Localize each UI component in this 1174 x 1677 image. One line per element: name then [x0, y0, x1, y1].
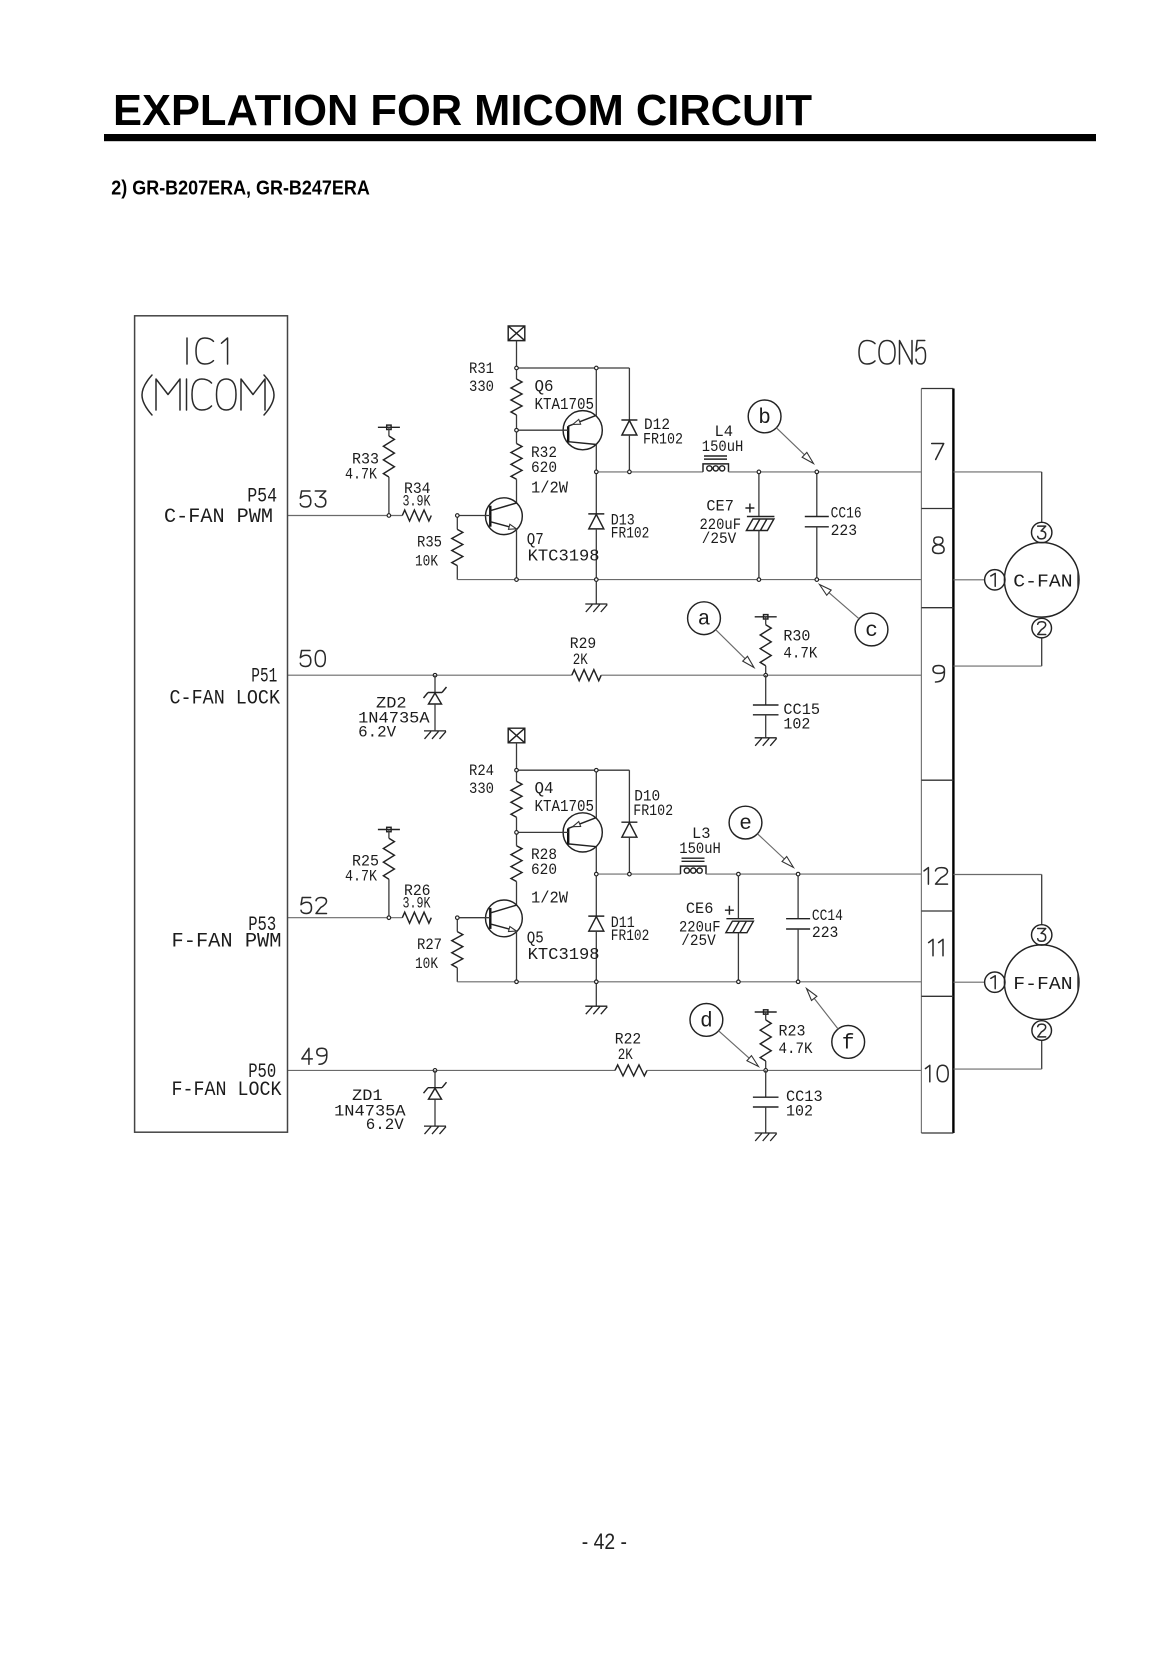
svg-text:d: d	[700, 1010, 713, 1033]
svg-text:3.9K: 3.9K	[403, 493, 431, 511]
svg-text:FR102: FR102	[611, 525, 650, 543]
svg-text:R31: R31	[469, 360, 494, 378]
svg-text:R35: R35	[417, 534, 442, 552]
svg-text:102: 102	[786, 1103, 813, 1121]
svg-text:- 42 -: - 42 -	[582, 1529, 627, 1554]
svg-text:/25V: /25V	[702, 530, 737, 548]
svg-text:223: 223	[812, 924, 839, 942]
svg-text:P51: P51	[251, 666, 277, 689]
svg-text:Q6: Q6	[535, 377, 554, 396]
svg-text:EXPLATION FOR MICOM CIRCUIT: EXPLATION FOR MICOM CIRCUIT	[113, 86, 812, 135]
svg-text:10K: 10K	[415, 553, 438, 571]
svg-text:4.7K: 4.7K	[345, 868, 377, 886]
svg-text:R24: R24	[469, 762, 494, 780]
svg-text:102: 102	[783, 716, 810, 734]
svg-text:R23: R23	[779, 1023, 806, 1041]
svg-text:KTA1705: KTA1705	[535, 797, 595, 816]
svg-text:FR102: FR102	[633, 802, 673, 820]
svg-text:2K: 2K	[618, 1046, 633, 1064]
svg-text:R27: R27	[417, 936, 442, 954]
svg-text:F-FAN PWM: F-FAN PWM	[172, 931, 282, 954]
svg-text:6.2V: 6.2V	[358, 724, 396, 742]
svg-text:620: 620	[531, 459, 557, 477]
svg-text:CC14: CC14	[812, 907, 843, 925]
svg-text:F-FAN: F-FAN	[1013, 974, 1072, 995]
svg-text:1/2W: 1/2W	[531, 889, 568, 908]
svg-text:10K: 10K	[415, 955, 438, 973]
svg-text:2) GR-B207ERA, GR-B247ERA: 2) GR-B207ERA, GR-B247ERA	[111, 177, 370, 199]
svg-text:CE6: CE6	[686, 900, 714, 918]
svg-text:f: f	[842, 1032, 855, 1055]
svg-text:FR102: FR102	[643, 431, 683, 449]
svg-text:620: 620	[531, 861, 557, 879]
svg-text:CE7: CE7	[706, 498, 734, 516]
svg-text:C-FAN LOCK: C-FAN LOCK	[170, 687, 281, 710]
svg-text:2K: 2K	[573, 651, 588, 669]
svg-text:150uH: 150uH	[679, 840, 721, 858]
svg-text:e: e	[739, 813, 752, 836]
svg-text:4.7K: 4.7K	[779, 1040, 813, 1058]
svg-text:R30: R30	[783, 628, 810, 646]
svg-text:6.2V: 6.2V	[366, 1116, 404, 1134]
svg-text:KTA1705: KTA1705	[535, 395, 595, 414]
svg-text:330: 330	[469, 378, 494, 396]
svg-text:4.7K: 4.7K	[783, 645, 817, 663]
svg-text:330: 330	[469, 780, 494, 798]
svg-text:b: b	[758, 407, 771, 430]
svg-text:C-FAN: C-FAN	[1013, 572, 1072, 593]
svg-text:CC16: CC16	[831, 505, 862, 523]
svg-text:c: c	[865, 620, 878, 643]
svg-text:4.7K: 4.7K	[345, 466, 377, 484]
svg-text:Q4: Q4	[535, 779, 554, 798]
svg-text:223: 223	[831, 522, 858, 540]
svg-text:FR102: FR102	[611, 927, 650, 945]
svg-text:KTC3198: KTC3198	[528, 945, 600, 964]
svg-text:1/2W: 1/2W	[531, 479, 568, 498]
svg-text:a: a	[698, 609, 711, 632]
svg-text:150uH: 150uH	[702, 438, 744, 456]
svg-text:F-FAN LOCK: F-FAN LOCK	[172, 1079, 282, 1102]
svg-text:C-FAN PWM: C-FAN PWM	[164, 506, 273, 529]
svg-text:3.9K: 3.9K	[403, 895, 431, 913]
svg-text:/25V: /25V	[681, 932, 716, 950]
svg-text:KTC3198: KTC3198	[528, 547, 600, 566]
